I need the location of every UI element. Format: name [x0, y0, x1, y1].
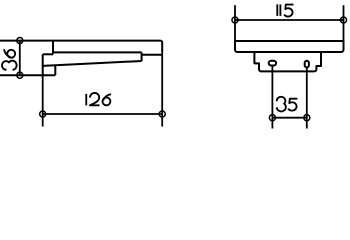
- shelf top edge with extension line to left margin: [0, 41, 162, 53]
- dimension 35: dimension line: [272, 117, 306, 119]
- wall plate front edge: [52, 41, 54, 55]
- dimension 126: right extension line below shelf tip: [161, 52, 163, 126]
- support arm right end: [141, 52, 143, 61]
- dimension 35: left circle: [269, 115, 275, 121]
- dimension 35: right circle: [304, 115, 310, 121]
- dimension 126: label text: [86, 93, 111, 105]
- dimension 126: dimension line: [43, 113, 163, 115]
- dimension 126: left circle: [40, 111, 46, 117]
- dimension 126: right circle: [159, 111, 165, 117]
- support arm tapered bottom edge: [43, 61, 142, 66]
- shelf front outline (rect, rounded bottom corners): [235, 41, 344, 52]
- dimension 35: left extension line from left slot: [271, 66, 273, 129]
- dimension 35: label text: [277, 97, 298, 112]
- dimension 115: right extension line: [343, 5, 345, 41]
- dimension 115: label text: [277, 4, 293, 16]
- dimension 115: dimension line: [235, 19, 344, 21]
- dimension 115: left circle: [232, 17, 238, 23]
- mounting plate stepped outline: [254, 52, 321, 71]
- wall plate left edge: [42, 54, 44, 75]
- wall plate top edge: [43, 53, 53, 55]
- dimension 36: dimension line: [19, 41, 21, 76]
- dimension 126: left extension line below wall edge: [42, 75, 44, 126]
- dimension 36: top circle: [17, 38, 23, 44]
- dimension 36: label text rotated: [2, 49, 17, 70]
- shelf underside line: [53, 51, 142, 53]
- dimension 115: right circle: [340, 17, 346, 23]
- right keyhole slot (vertical): [305, 61, 309, 68]
- dimension 36: bottom circle: [17, 72, 23, 78]
- wall plate lower lobe right edge: [54, 65, 56, 75]
- dimension 115: left extension line: [234, 5, 236, 41]
- bracket bottom edge with extension line to left margin: [0, 74, 55, 76]
- dimension 35: right extension line from right slot: [306, 67, 308, 128]
- shelf nose underside line: [142, 54, 163, 56]
- left keyhole slot (horizontal): [269, 61, 276, 66]
